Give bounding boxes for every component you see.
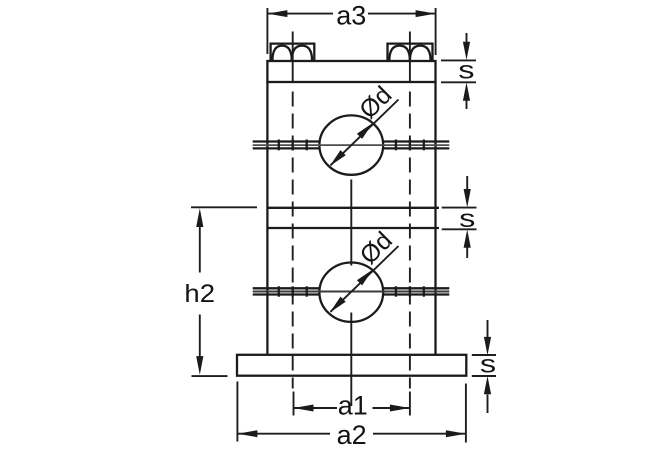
dimension h2 extension bottom [192, 375, 228, 377]
dimension a3 line [267, 10, 435, 17]
dimension a1 line [294, 405, 410, 412]
base plate [237, 355, 466, 376]
dimension s top arrows [463, 33, 470, 109]
dimension a1 extension right [409, 392, 411, 416]
dimension a2 line [237, 430, 466, 437]
dimension a2 extension left [236, 382, 238, 442]
bolt stub left [292, 32, 294, 83]
dimension s bottom arrows [484, 320, 491, 413]
clamp body right edge [434, 82, 436, 355]
dimension h2 extension top [191, 206, 257, 208]
dimension a1 extension left [293, 392, 295, 416]
dimension h2 line [196, 208, 203, 374]
dimension s middle arrows [464, 176, 471, 258]
center line [350, 180, 352, 407]
dimension Ød lower leader [330, 246, 399, 313]
dimension s top ticks [441, 60, 476, 82]
svg-text:h2: h2 [184, 279, 215, 308]
svg-text:a2: a2 [337, 420, 367, 450]
split joint upper [253, 140, 450, 151]
bolt stub right [409, 32, 411, 83]
dimension s bottom ticks [472, 355, 496, 376]
hex nut right [388, 44, 433, 61]
svg-text:a1: a1 [338, 391, 368, 421]
dimension a2 extension right [465, 384, 467, 443]
split joint lower [253, 286, 450, 296]
pipe bore circle upper [319, 115, 383, 174]
pipe bore circle lower [319, 263, 383, 322]
clamp body left edge [266, 82, 268, 355]
middle plate top line [267, 207, 439, 209]
svg-text:s: s [458, 57, 474, 85]
top cover plate [267, 61, 435, 82]
svg-text:a3: a3 [336, 0, 366, 30]
middle plate bottom line [267, 227, 439, 229]
bolt centerline right [409, 92, 411, 389]
dimension s middle ticks [442, 208, 477, 230]
bolt centerline left [292, 92, 294, 389]
hex nut left [271, 44, 315, 61]
dimension a3 extension line right [435, 8, 437, 55]
svg-text:s: s [480, 351, 496, 379]
dimension Ød upper leader [330, 100, 399, 167]
dimension a3 extension line left [266, 8, 268, 54]
svg-text:s: s [459, 205, 475, 233]
